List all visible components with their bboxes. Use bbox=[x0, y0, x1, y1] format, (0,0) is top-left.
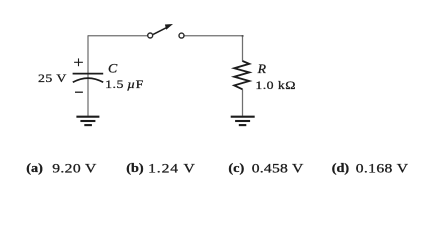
switch right contact bbox=[179, 33, 184, 38]
svg-text:1.5 µF: 1.5 µF bbox=[105, 77, 144, 91]
svg-text:1.0 kΩ: 1.0 kΩ bbox=[255, 78, 296, 92]
svg-text:R: R bbox=[257, 62, 266, 76]
wire top-left horizontal bbox=[88, 35, 148, 37]
svg-text:25 V: 25 V bbox=[38, 71, 67, 85]
polarity plus sign bbox=[74, 58, 83, 66]
svg-text:(d): (d) bbox=[332, 161, 349, 175]
svg-text:(c): (c) bbox=[228, 161, 244, 175]
wire right vertical to resistor bbox=[242, 35, 244, 61]
ground (right, below resistor) bbox=[231, 117, 255, 125]
ground (left, below capacitor) bbox=[76, 117, 99, 125]
svg-text:1.24 V: 1.24 V bbox=[148, 162, 196, 176]
switch left contact bbox=[148, 33, 153, 38]
resistor R zigzag bbox=[234, 61, 249, 89]
svg-text:0.458 V: 0.458 V bbox=[252, 162, 304, 176]
wire switch to right corner bbox=[185, 35, 244, 37]
svg-text:0.168 V: 0.168 V bbox=[356, 162, 409, 176]
switch arrowhead bbox=[165, 24, 173, 30]
wire left vertical (top node through capacitor to ground) bbox=[87, 35, 89, 116]
polarity minus sign bbox=[75, 91, 83, 93]
wire resistor to ground bbox=[242, 89, 244, 116]
svg-text:(b): (b) bbox=[126, 161, 143, 175]
svg-text:C: C bbox=[108, 61, 117, 75]
wire corner junction bbox=[242, 35, 244, 37]
switch arm bbox=[153, 27, 168, 34]
svg-text:(a): (a) bbox=[26, 161, 43, 175]
capacitor C curved plate bbox=[73, 78, 103, 82]
svg-text:9.20 V: 9.20 V bbox=[52, 162, 97, 176]
capacitor C top plate bbox=[73, 73, 104, 75]
